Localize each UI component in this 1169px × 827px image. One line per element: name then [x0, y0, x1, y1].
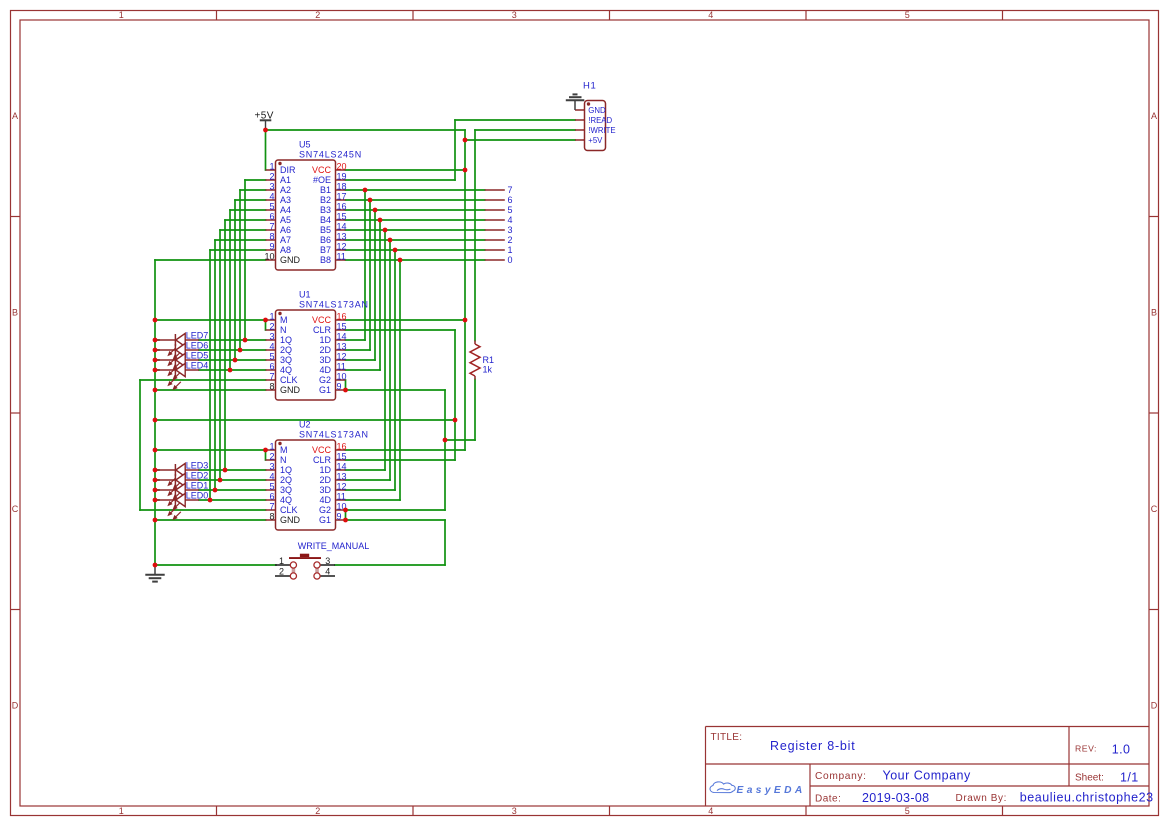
svg-text:3Q: 3Q: [280, 485, 292, 495]
svg-text:CLK: CLK: [280, 505, 298, 515]
svg-text:12: 12: [337, 241, 347, 251]
svg-text:7: 7: [508, 185, 513, 195]
svg-text:A7: A7: [280, 235, 291, 245]
svg-text:17: 17: [337, 191, 347, 201]
svg-text:CLK: CLK: [280, 375, 298, 385]
svg-text:H1: H1: [583, 80, 596, 91]
svg-text:5: 5: [508, 205, 513, 215]
svg-text:3: 3: [512, 10, 517, 20]
svg-text:B6: B6: [320, 235, 331, 245]
svg-text:B1: B1: [320, 185, 331, 195]
svg-text:N: N: [280, 455, 287, 465]
svg-text:1: 1: [119, 10, 124, 20]
svg-text:B3: B3: [320, 205, 331, 215]
svg-text:LED0: LED0: [186, 491, 209, 501]
svg-text:2: 2: [315, 10, 320, 20]
svg-text:M: M: [280, 445, 288, 455]
svg-text:8: 8: [269, 231, 274, 241]
svg-text:LED6: LED6: [186, 341, 209, 351]
svg-text:11: 11: [337, 361, 346, 371]
svg-text:A1: A1: [280, 175, 291, 185]
svg-text:6: 6: [269, 361, 274, 371]
svg-text:VCC: VCC: [312, 445, 332, 455]
svg-text:11: 11: [337, 251, 346, 261]
svg-text:LED3: LED3: [186, 461, 209, 471]
svg-text:3: 3: [269, 181, 274, 191]
svg-text:13: 13: [337, 471, 347, 481]
svg-text:A3: A3: [280, 195, 291, 205]
svg-text:9: 9: [337, 381, 342, 391]
svg-text:2: 2: [269, 321, 274, 331]
svg-text:beaulieu.christophe23: beaulieu.christophe23: [1020, 790, 1154, 804]
svg-text:LED5: LED5: [186, 351, 209, 361]
svg-text:13: 13: [337, 341, 347, 351]
svg-text:4: 4: [269, 191, 274, 201]
svg-text:1k: 1k: [483, 365, 493, 375]
svg-text:14: 14: [337, 331, 347, 341]
svg-text:Sheet:: Sheet:: [1075, 772, 1104, 783]
svg-text:R1: R1: [483, 355, 495, 365]
svg-text:GND: GND: [280, 255, 301, 265]
svg-text:GND: GND: [280, 515, 301, 525]
svg-text:CLR: CLR: [313, 325, 332, 335]
svg-text:TITLE:: TITLE:: [711, 732, 743, 743]
svg-text:6: 6: [269, 211, 274, 221]
svg-text:16: 16: [337, 311, 347, 321]
svg-text:C: C: [12, 504, 19, 514]
svg-text:5: 5: [269, 351, 274, 361]
svg-text:GND: GND: [588, 106, 606, 115]
svg-text:8: 8: [269, 381, 274, 391]
svg-text:0: 0: [508, 255, 513, 265]
svg-text:LED7: LED7: [186, 331, 209, 341]
svg-text:13: 13: [337, 231, 347, 241]
svg-text:A4: A4: [280, 205, 291, 215]
svg-text:G2: G2: [319, 375, 331, 385]
svg-text:1Q: 1Q: [280, 335, 292, 345]
svg-text:B2: B2: [320, 195, 331, 205]
svg-text:4: 4: [508, 215, 513, 225]
svg-text:1: 1: [269, 161, 274, 171]
svg-text:7: 7: [269, 371, 274, 381]
svg-text:U5: U5: [299, 140, 311, 150]
svg-text:Your Company: Your Company: [883, 769, 971, 783]
svg-text:19: 19: [337, 171, 347, 181]
svg-text:A8: A8: [280, 245, 291, 255]
svg-text:GND: GND: [280, 385, 301, 395]
svg-text:Drawn By:: Drawn By:: [956, 793, 1008, 804]
svg-text:5: 5: [269, 201, 274, 211]
svg-text:4D: 4D: [319, 365, 331, 375]
svg-text:1: 1: [269, 311, 274, 321]
svg-text:1D: 1D: [319, 335, 331, 345]
svg-text:+5V: +5V: [255, 111, 274, 122]
svg-text:Register 8-bit: Register 8-bit: [770, 739, 856, 753]
svg-text:3: 3: [325, 556, 330, 566]
svg-text:B4: B4: [320, 215, 331, 225]
svg-text:4D: 4D: [319, 495, 331, 505]
svg-text:4: 4: [269, 471, 274, 481]
svg-text:2: 2: [269, 171, 274, 181]
svg-text:7: 7: [269, 501, 274, 511]
svg-text:2019-03-08: 2019-03-08: [862, 791, 929, 805]
svg-text:5: 5: [905, 10, 910, 20]
svg-text:3: 3: [269, 331, 274, 341]
svg-text:1Q: 1Q: [280, 465, 292, 475]
svg-text:B: B: [1151, 308, 1157, 318]
svg-text:SN74LS245N: SN74LS245N: [299, 150, 362, 160]
svg-text:VCC: VCC: [312, 165, 332, 175]
svg-text:1: 1: [119, 806, 124, 816]
svg-text:12: 12: [337, 481, 347, 491]
svg-text:4Q: 4Q: [280, 365, 292, 375]
svg-text:A2: A2: [280, 185, 291, 195]
svg-text:B: B: [12, 308, 18, 318]
svg-text:1: 1: [508, 245, 513, 255]
svg-text:3: 3: [512, 806, 517, 816]
svg-text:A5: A5: [280, 215, 291, 225]
svg-text:1: 1: [279, 556, 284, 566]
svg-text:2Q: 2Q: [280, 345, 292, 355]
svg-text:5: 5: [269, 481, 274, 491]
svg-text:3Q: 3Q: [280, 355, 292, 365]
svg-text:VCC: VCC: [312, 315, 332, 325]
svg-text:G2: G2: [319, 505, 331, 515]
svg-text:2D: 2D: [319, 475, 331, 485]
svg-text:2: 2: [508, 235, 513, 245]
svg-text:3D: 3D: [319, 485, 331, 495]
svg-text:A: A: [12, 111, 18, 121]
svg-text:9: 9: [337, 511, 342, 521]
svg-text:15: 15: [337, 211, 347, 221]
svg-text:CLR: CLR: [313, 455, 332, 465]
svg-text:2: 2: [269, 451, 274, 461]
svg-text:10: 10: [264, 251, 274, 261]
svg-text:1: 1: [269, 441, 274, 451]
svg-text:2Q: 2Q: [280, 475, 292, 485]
svg-text:4: 4: [708, 10, 713, 20]
svg-text:5: 5: [905, 806, 910, 816]
svg-text:Date:: Date:: [815, 793, 841, 804]
svg-text:LED4: LED4: [186, 361, 209, 371]
svg-text:DIR: DIR: [280, 165, 296, 175]
svg-text:3D: 3D: [319, 355, 331, 365]
svg-text:U1: U1: [299, 290, 311, 300]
svg-text:Company:: Company:: [815, 771, 867, 782]
svg-text:7: 7: [269, 221, 274, 231]
svg-text:1/1: 1/1: [1120, 770, 1139, 784]
svg-text:LED1: LED1: [186, 481, 209, 491]
svg-text:+5V: +5V: [588, 136, 603, 145]
svg-text:1.0: 1.0: [1112, 743, 1131, 757]
svg-text:18: 18: [337, 181, 347, 191]
svg-text:14: 14: [337, 221, 347, 231]
svg-text:#OE: #OE: [313, 175, 331, 185]
svg-text:REV:: REV:: [1075, 744, 1097, 754]
svg-text:6: 6: [508, 195, 513, 205]
svg-text:M: M: [280, 315, 288, 325]
svg-text:4: 4: [708, 806, 713, 816]
svg-text:6: 6: [269, 491, 274, 501]
svg-text:3: 3: [508, 225, 513, 235]
svg-text:G1: G1: [319, 385, 331, 395]
svg-text:2: 2: [279, 567, 284, 577]
svg-text:11: 11: [337, 491, 346, 501]
svg-text:2D: 2D: [319, 345, 331, 355]
svg-text:16: 16: [337, 441, 347, 451]
svg-text:B8: B8: [320, 255, 331, 265]
svg-text:C: C: [1151, 504, 1158, 514]
svg-text:B7: B7: [320, 245, 331, 255]
svg-text:!WRITE: !WRITE: [588, 126, 615, 135]
svg-text:EasyEDA: EasyEDA: [737, 785, 806, 796]
svg-text:4: 4: [269, 341, 274, 351]
svg-text:2: 2: [315, 806, 320, 816]
svg-text:12: 12: [337, 351, 347, 361]
svg-text:3: 3: [269, 461, 274, 471]
svg-text:10: 10: [337, 371, 347, 381]
svg-text:SN74LS173AN: SN74LS173AN: [299, 430, 369, 440]
svg-text:G1: G1: [319, 515, 331, 525]
svg-text:4: 4: [325, 567, 330, 577]
svg-text:16: 16: [337, 201, 347, 211]
svg-text:LED2: LED2: [186, 471, 209, 481]
svg-text:1D: 1D: [319, 465, 331, 475]
svg-text:14: 14: [337, 461, 347, 471]
svg-text:B5: B5: [320, 225, 331, 235]
svg-text:WRITE_MANUAL: WRITE_MANUAL: [298, 541, 370, 551]
svg-text:8: 8: [269, 511, 274, 521]
svg-text:4Q: 4Q: [280, 495, 292, 505]
svg-text:A6: A6: [280, 225, 291, 235]
svg-text:SN74LS173AN: SN74LS173AN: [299, 300, 369, 310]
svg-text:D: D: [12, 701, 19, 711]
svg-text:15: 15: [337, 451, 347, 461]
svg-text:A: A: [1151, 111, 1157, 121]
svg-text:U2: U2: [299, 420, 311, 430]
svg-text:D: D: [1151, 701, 1158, 711]
svg-text:20: 20: [337, 161, 347, 171]
svg-text:!READ: !READ: [588, 116, 612, 125]
svg-text:9: 9: [269, 241, 274, 251]
svg-text:15: 15: [337, 321, 347, 331]
svg-text:N: N: [280, 325, 287, 335]
